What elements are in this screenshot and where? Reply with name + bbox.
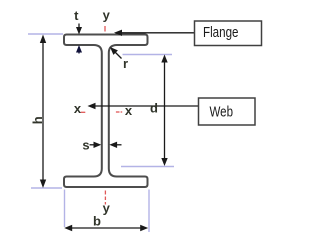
svg-text:h: h [30, 116, 45, 124]
extension line bottom-left (h bottom) [31, 187, 62, 189]
s dimension arrows [90, 142, 122, 148]
svg-text:b: b [93, 213, 101, 228]
Web label box [199, 98, 256, 125]
Flange label box [195, 21, 262, 46]
svg-text:x: x [125, 103, 133, 118]
svg-text:y: y [103, 200, 111, 215]
extension line d bottom [121, 166, 174, 168]
svg-text:y: y [103, 8, 111, 23]
svg-text:Flange: Flange [203, 25, 239, 41]
svg-text:s: s [82, 137, 89, 152]
t dimension arrows [76, 24, 82, 35]
svg-text:Web: Web [210, 105, 234, 121]
x axis line with left arrow [88, 103, 199, 109]
extension line b right [148, 190, 150, 233]
Flange callout line + arrow [114, 30, 195, 36]
extension line top-left (h top) [28, 33, 63, 35]
svg-text:t: t [74, 8, 79, 23]
svg-text:d: d [150, 101, 158, 116]
y axis bottom red dashed [104, 191, 106, 205]
svg-text:x: x [74, 101, 82, 116]
x axis red dashes [81, 111, 123, 113]
I-beam outline [64, 35, 148, 188]
d dimension arrow [161, 55, 167, 167]
svg-text:r: r [123, 56, 128, 71]
extension line b left [64, 190, 66, 228]
y axis top red dashed [104, 26, 106, 32]
extension line d top [123, 54, 173, 56]
r callout arrow [110, 47, 122, 59]
b dimension arrow [64, 225, 148, 231]
h dimension arrow [40, 35, 46, 189]
